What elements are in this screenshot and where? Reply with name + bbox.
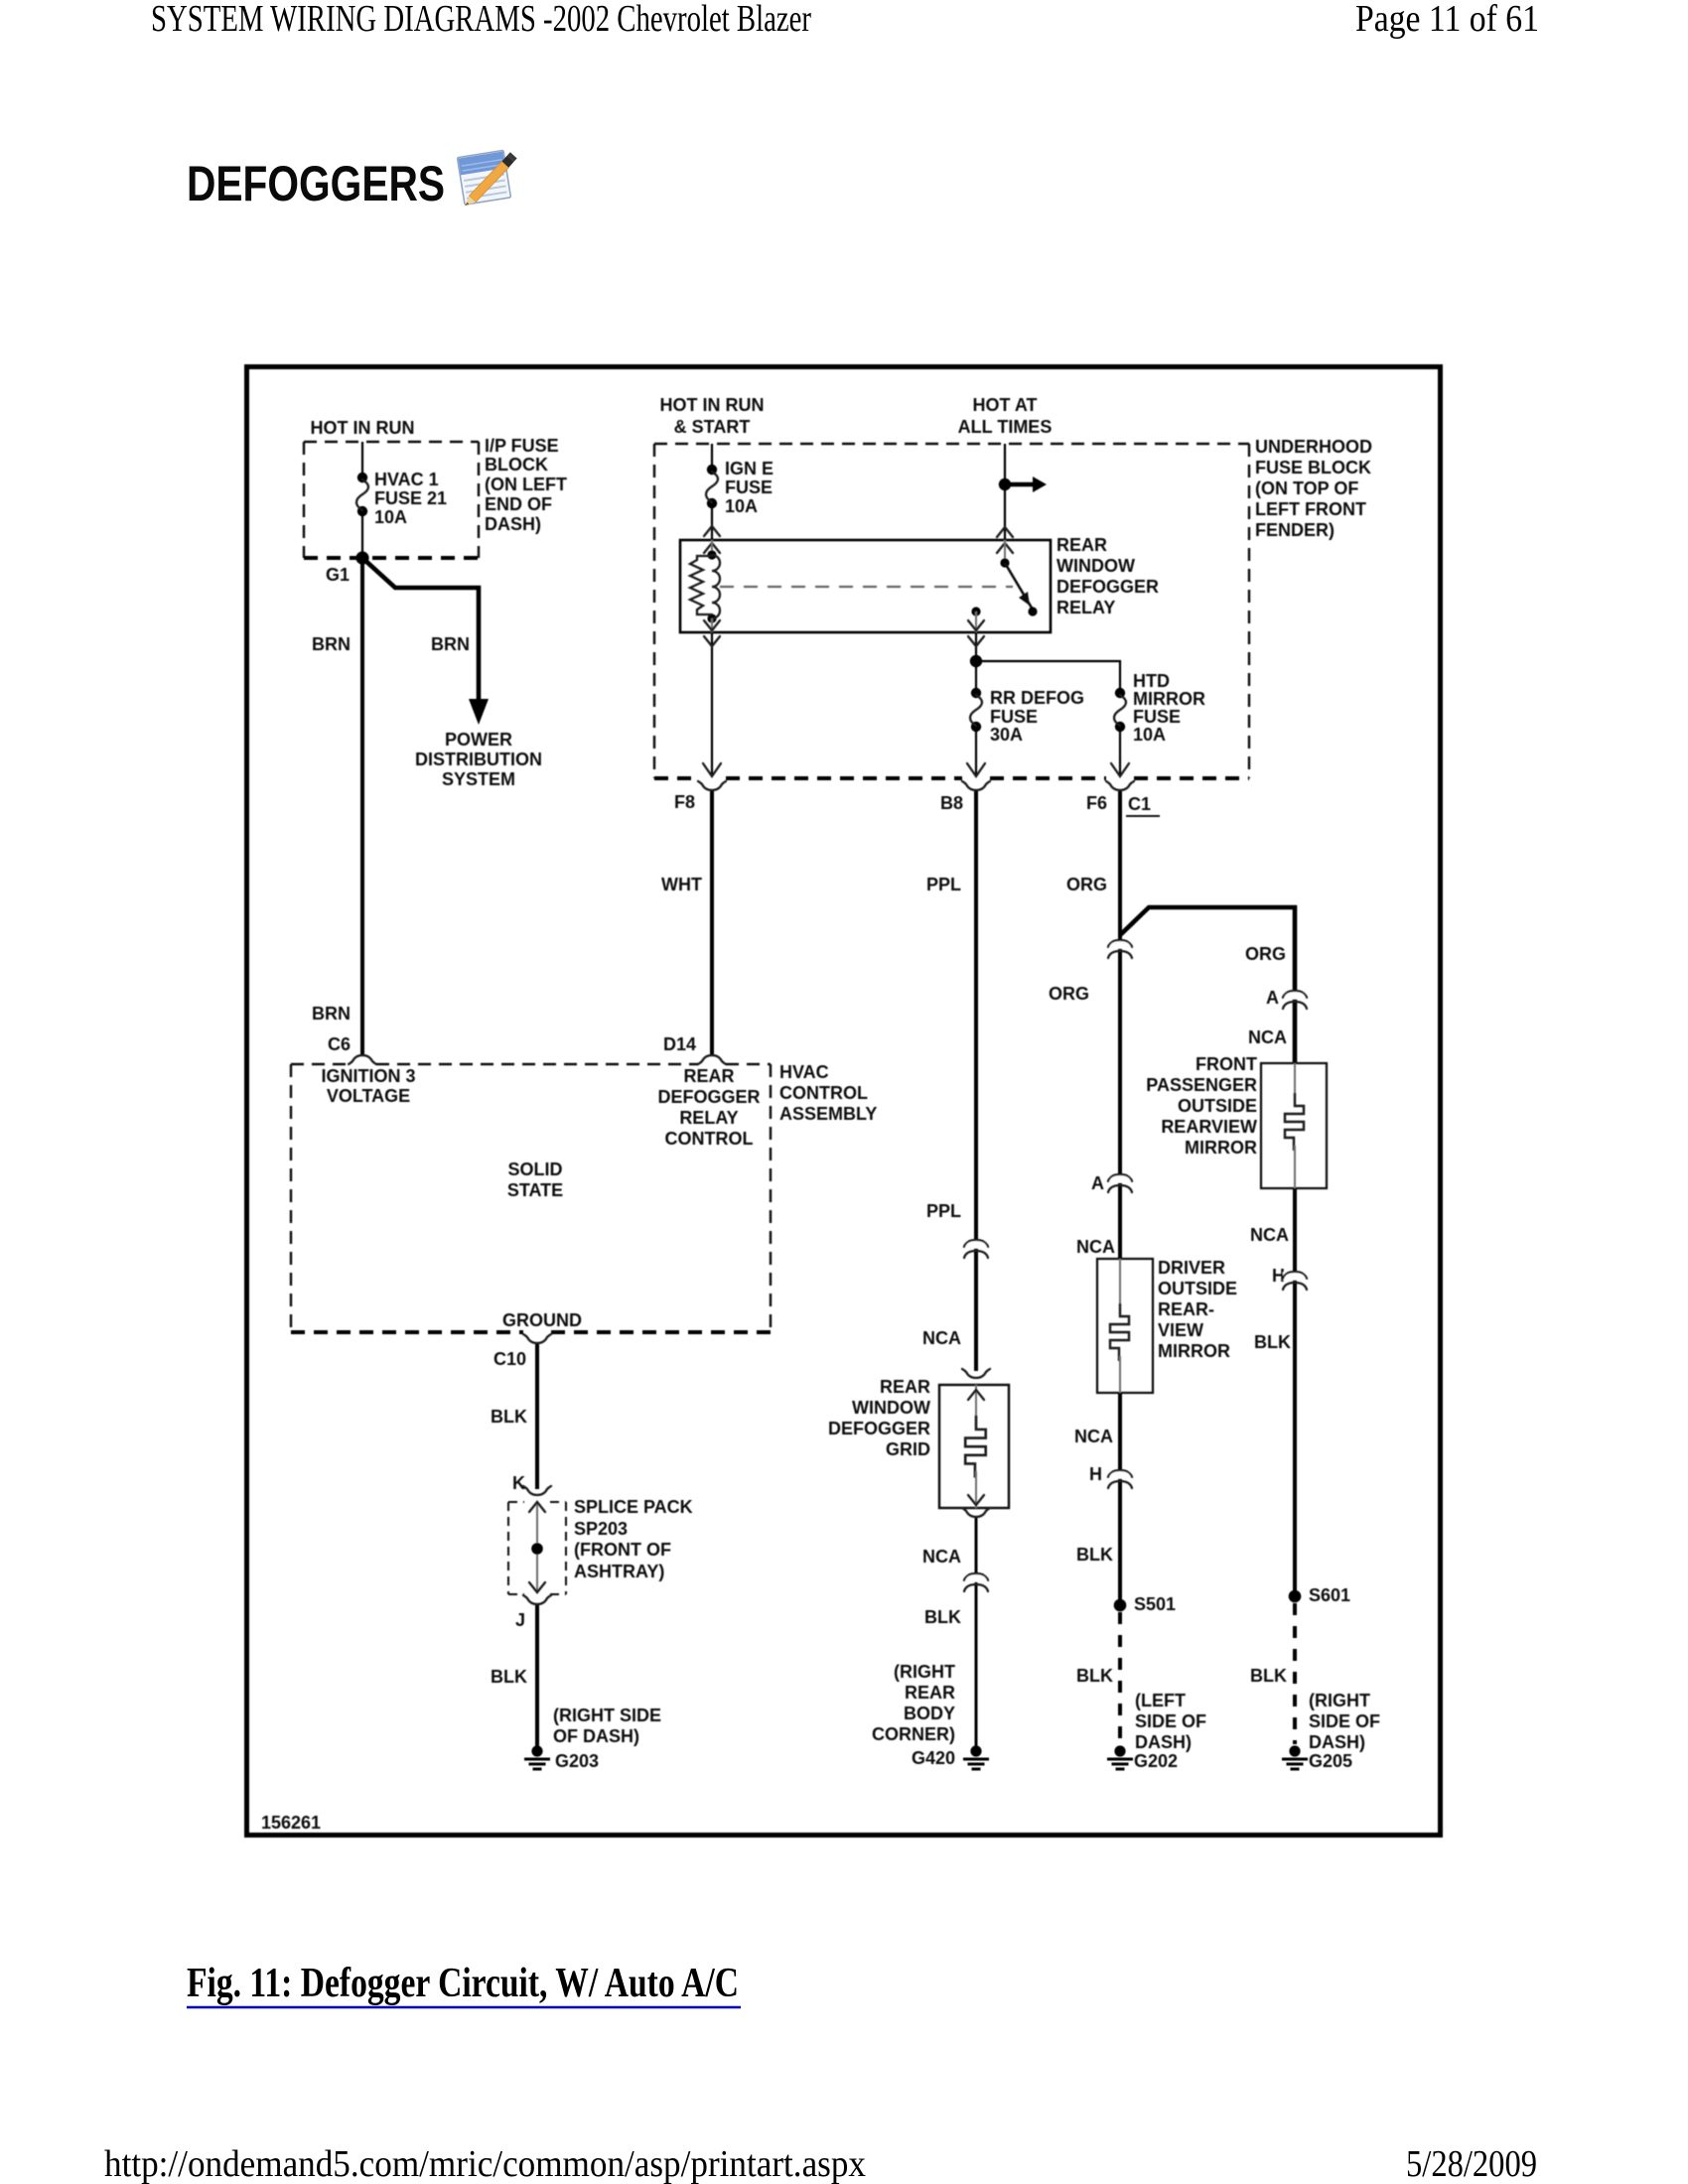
wire passenger mirror to S601 <box>1293 1188 1297 1596</box>
heater element grid <box>965 1416 986 1478</box>
svg-text:BLK: BLK <box>1076 1545 1113 1565</box>
svg-text:BLK: BLK <box>1254 1332 1291 1352</box>
pin chevron inside relay left <box>704 543 720 553</box>
svg-text:ORG: ORG <box>1049 984 1089 1004</box>
label IGNITION 3 VOLTAGE <box>321 1066 415 1106</box>
wire relay left pin to F8 <box>711 632 713 775</box>
passenger mirror box <box>1261 1063 1327 1188</box>
svg-text:OF DASH): OF DASH) <box>553 1726 639 1746</box>
svg-text:G420: G420 <box>912 1748 955 1768</box>
svg-text:WINDOW: WINDOW <box>1056 556 1135 576</box>
svg-text:(LEFT: (LEFT <box>1135 1691 1186 1710</box>
svg-text:BRN: BRN <box>431 634 470 654</box>
svg-text:NCA: NCA <box>922 1547 961 1567</box>
svg-text:D14: D14 <box>663 1034 696 1054</box>
svg-text:VIEW: VIEW <box>1158 1320 1203 1340</box>
pin C1 <box>1128 794 1151 814</box>
svg-text:OUTSIDE: OUTSIDE <box>1178 1096 1257 1116</box>
svg-text:ORG: ORG <box>1066 875 1107 894</box>
svg-text:NCA: NCA <box>1248 1027 1287 1047</box>
svg-text:GROUND: GROUND <box>502 1310 582 1330</box>
pin J <box>523 1595 551 1604</box>
svg-text:NCA: NCA <box>1074 1427 1113 1446</box>
svg-text:BLOCK: BLOCK <box>485 455 548 475</box>
ground G420 <box>963 1745 989 1770</box>
heater element driver mirror <box>1119 1259 1121 1304</box>
svg-text:BRN: BRN <box>312 1004 351 1024</box>
svg-text:(RIGHT SIDE: (RIGHT SIDE <box>553 1706 661 1725</box>
pin F8 <box>698 781 726 790</box>
svg-text:G205: G205 <box>1309 1751 1352 1771</box>
svg-text:HOT IN RUN: HOT IN RUN <box>311 418 415 438</box>
label (LEFT SIDE OF DASH) <box>1135 1691 1206 1752</box>
heater element passenger mirror <box>1294 1063 1296 1094</box>
ground G205 <box>1282 1745 1308 1770</box>
svg-text:(FRONT OF: (FRONT OF <box>574 1540 671 1560</box>
svg-text:Fig. 11: Defogger Circuit, W/: Fig. 11: Defogger Circuit, W/ Auto A/C <box>187 1961 739 2006</box>
svg-text:& START: & START <box>674 417 751 437</box>
connector break <box>964 1573 988 1591</box>
relay common terminal <box>971 607 980 615</box>
svg-text:SIDE OF: SIDE OF <box>1309 1711 1380 1731</box>
svg-text:C10: C10 <box>493 1349 526 1369</box>
svg-text:OUTSIDE: OUTSIDE <box>1158 1279 1237 1298</box>
svg-text:REAR: REAR <box>880 1377 930 1397</box>
fuse HVAC 1 FUSE 21 10A <box>356 473 368 516</box>
svg-text:SIDE OF: SIDE OF <box>1135 1711 1206 1731</box>
wire BRN down to C6 <box>360 558 364 1054</box>
dashed wire to G205 <box>1293 1603 1297 1744</box>
fuse RR DEFOG 30A <box>970 688 982 732</box>
connector break <box>1108 940 1132 958</box>
svg-text:REARVIEW: REARVIEW <box>1161 1117 1257 1137</box>
svg-text:DEFOGGER: DEFOGGER <box>657 1087 760 1107</box>
svg-text:C1: C1 <box>1128 794 1151 814</box>
svg-text:10A: 10A <box>374 507 407 527</box>
wire stub into fuse <box>361 442 363 478</box>
svg-text:RELAY: RELAY <box>1056 598 1115 617</box>
relay label REAR WINDOW DEFOGGER RELAY <box>1056 535 1159 617</box>
svg-text:CONTROL: CONTROL <box>779 1083 868 1103</box>
I/P fuse block label <box>485 436 567 534</box>
pin into grid <box>962 1369 990 1378</box>
svg-text:REAR: REAR <box>683 1066 734 1086</box>
svg-text:DASH): DASH) <box>1135 1732 1192 1752</box>
svg-text:CORNER): CORNER) <box>872 1724 955 1744</box>
label DRIVER OUTSIDE REAR-VIEW MIRROR <box>1158 1258 1237 1361</box>
node G1 <box>355 551 368 564</box>
svg-text:WHT: WHT <box>661 875 702 894</box>
svg-text:B8: B8 <box>940 793 963 813</box>
svg-text:MIRROR: MIRROR <box>1133 689 1205 709</box>
svg-text:K: K <box>512 1473 525 1493</box>
relay coil out chevron <box>711 618 713 632</box>
svg-text:DASH): DASH) <box>1309 1732 1365 1752</box>
svg-text:BLK: BLK <box>491 1407 527 1427</box>
pin out of grid <box>962 1508 990 1517</box>
wire junction to HTD fuse <box>976 661 1120 693</box>
fuse IGN E 10A <box>706 465 718 508</box>
wire HOT AT ALL TIMES into relay <box>1004 444 1006 540</box>
wire stub to IGN E fuse <box>711 444 713 470</box>
relay box <box>680 540 1051 632</box>
node HOT IN RUN & START <box>660 395 765 437</box>
svg-text:BRN: BRN <box>312 634 351 654</box>
wire HTD to F6 <box>1119 727 1121 775</box>
svg-text:MIRROR: MIRROR <box>1185 1138 1257 1158</box>
svg-text:SOLID: SOLID <box>507 1160 562 1179</box>
svg-text:Page 11 of 61: Page 11 of 61 <box>1355 0 1539 40</box>
svg-text:END OF: END OF <box>485 494 552 514</box>
splice node SP203 <box>531 1543 543 1555</box>
svg-text:J: J <box>515 1610 525 1630</box>
svg-text:BLK: BLK <box>1076 1666 1113 1686</box>
wire PPL B8 down <box>974 791 978 1371</box>
svg-text:FUSE: FUSE <box>1133 707 1181 727</box>
label HVAC CONTROL ASSEMBLY <box>779 1062 877 1124</box>
svg-text:IGN E: IGN E <box>725 459 774 478</box>
wire fuse to G1 <box>361 511 363 558</box>
svg-text:HVAC 1: HVAC 1 <box>374 470 439 489</box>
svg-text:(ON TOP OF: (ON TOP OF <box>1255 478 1358 498</box>
pin C10 <box>523 1334 551 1343</box>
svg-text:ASHTRAY): ASHTRAY) <box>574 1562 664 1581</box>
svg-text:S501: S501 <box>1134 1594 1176 1614</box>
svg-text:ASSEMBLY: ASSEMBLY <box>779 1104 877 1124</box>
splice internal wire <box>536 1503 538 1592</box>
fuse HTD MIRROR 10A <box>1114 688 1126 732</box>
svg-text:I/P FUSE: I/P FUSE <box>485 436 559 456</box>
label POWER DISTRIBUTION SYSTEM <box>415 730 542 789</box>
splice pack SP203 dashed box <box>508 1502 566 1594</box>
wire junction to RR DEFOG fuse <box>975 661 977 693</box>
wire RR DEFOG to B8 <box>975 727 977 775</box>
wire WHT F8 to D14 <box>710 791 714 1054</box>
rear window defogger grid box <box>939 1385 1009 1508</box>
wire BLK C10 to splice <box>535 1344 539 1489</box>
svg-text:DISTRIBUTION: DISTRIBUTION <box>415 750 542 769</box>
connector chevron above relay right <box>997 527 1013 537</box>
svg-text:LEFT FRONT: LEFT FRONT <box>1255 499 1366 519</box>
label (RIGHT REAR BODY CORNER) <box>872 1662 955 1744</box>
svg-text:SP203: SP203 <box>574 1519 628 1539</box>
svg-text:HVAC: HVAC <box>779 1062 829 1082</box>
svg-text:REAR-: REAR- <box>1158 1299 1214 1319</box>
svg-text:A: A <box>1266 988 1279 1008</box>
svg-text:NCA: NCA <box>922 1328 961 1348</box>
svg-text:BLK: BLK <box>924 1607 961 1627</box>
svg-text:FUSE: FUSE <box>990 707 1038 727</box>
svg-text:DASH): DASH) <box>485 514 541 534</box>
svg-text:RR DEFOG: RR DEFOG <box>990 688 1084 708</box>
svg-text:UNDERHOOD: UNDERHOOD <box>1255 437 1372 457</box>
svg-text:ALL TIMES: ALL TIMES <box>958 417 1053 437</box>
svg-text:GRID: GRID <box>886 1439 930 1459</box>
wire ORG branch to right <box>1120 907 1295 1063</box>
svg-text:(ON LEFT: (ON LEFT <box>485 475 567 494</box>
svg-text:(RIGHT: (RIGHT <box>1309 1691 1370 1710</box>
svg-text:PASSENGER: PASSENGER <box>1146 1075 1257 1095</box>
grid internal wire <box>975 1385 977 1418</box>
svg-text:SYSTEM WIRING DIAGRAMS -2002 C: SYSTEM WIRING DIAGRAMS -2002 Chevrolet B… <box>151 0 811 40</box>
notepad pencil icon <box>458 150 517 207</box>
label (RIGHT SIDE OF DASH) <box>553 1706 661 1746</box>
svg-text:HTD: HTD <box>1133 671 1170 691</box>
relay resistor <box>690 556 712 614</box>
svg-text:G203: G203 <box>555 1751 599 1771</box>
svg-text:F6: F6 <box>1086 793 1107 813</box>
svg-text:5/28/2009: 5/28/2009 <box>1406 2143 1537 2184</box>
svg-text:REAR: REAR <box>905 1683 955 1703</box>
pin F6 <box>1106 781 1134 790</box>
driver mirror box <box>1097 1259 1153 1393</box>
svg-text:RELAY: RELAY <box>679 1108 738 1128</box>
svg-text:F8: F8 <box>674 792 695 812</box>
svg-text:REAR: REAR <box>1056 535 1107 555</box>
underhood fuse block dashed box <box>654 444 1249 778</box>
svg-text:G202: G202 <box>1134 1751 1178 1771</box>
splice S601 <box>1289 1590 1302 1603</box>
svg-text:PPL: PPL <box>926 875 961 894</box>
svg-text:IGNITION 3: IGNITION 3 <box>321 1066 415 1086</box>
svg-text:A: A <box>1091 1173 1104 1193</box>
svg-text:HOT IN RUN: HOT IN RUN <box>660 395 765 415</box>
svg-text:FUSE: FUSE <box>725 478 773 497</box>
svg-text:STATE: STATE <box>507 1180 563 1200</box>
svg-text:H: H <box>1089 1464 1102 1484</box>
svg-text:G1: G1 <box>326 565 350 585</box>
wire branch to power distribution <box>362 558 479 707</box>
svg-text:http://ondemand5.com/mric/comm: http://ondemand5.com/mric/common/asp/pri… <box>104 2143 866 2184</box>
svg-text:156261: 156261 <box>261 1813 321 1833</box>
svg-text:10A: 10A <box>1133 725 1166 745</box>
svg-text:BLK: BLK <box>1250 1666 1287 1686</box>
svg-text:DEFOGGER: DEFOGGER <box>1056 577 1159 597</box>
label SOLID STATE <box>507 1160 563 1200</box>
relay coil <box>707 550 716 559</box>
svg-text:WINDOW: WINDOW <box>852 1398 930 1418</box>
wire ORG F6 down <box>1118 791 1122 1259</box>
underhood fuse block label <box>1255 437 1372 540</box>
svg-text:NCA: NCA <box>1076 1237 1115 1257</box>
pin B8 <box>962 781 990 790</box>
svg-text:SPLICE PACK: SPLICE PACK <box>574 1497 693 1517</box>
node fuse feed junction <box>970 655 982 667</box>
svg-text:BODY: BODY <box>904 1704 955 1723</box>
connector chevron above relay <box>704 526 720 536</box>
connector break <box>964 1240 988 1258</box>
node feed junction <box>999 478 1011 490</box>
svg-text:DEFOGGER: DEFOGGER <box>828 1419 930 1438</box>
dashed wire to G202 <box>1118 1612 1122 1744</box>
ground G203 <box>524 1745 550 1770</box>
label FRONT PASSENGER OUTSIDE REARVIEW MIRROR <box>1146 1054 1257 1158</box>
svg-text:FRONT: FRONT <box>1196 1054 1257 1074</box>
svg-text:MIRROR: MIRROR <box>1158 1341 1230 1361</box>
arrow to power distribution <box>469 699 489 725</box>
svg-text:S601: S601 <box>1309 1585 1350 1605</box>
arrow feed right <box>1005 482 1035 486</box>
node HOT AT ALL TIMES <box>958 395 1053 437</box>
I/P fuse block dashed box <box>304 442 479 558</box>
relay internal dashed link <box>720 586 1013 588</box>
svg-text:30A: 30A <box>990 725 1023 745</box>
svg-text:C6: C6 <box>328 1034 351 1054</box>
label REAR WINDOW DEFOGGER GRID <box>828 1377 930 1459</box>
svg-text:FENDER): FENDER) <box>1255 520 1335 540</box>
svg-text:ORG: ORG <box>1245 944 1286 964</box>
wire fuse to relay <box>711 503 713 540</box>
diagram frame <box>247 367 1441 1836</box>
pin chevron inside relay right <box>997 543 1013 553</box>
wire driver mirror to S501 <box>1118 1393 1122 1605</box>
wire BLK J to G203 <box>535 1605 539 1746</box>
svg-text:PPL: PPL <box>926 1201 961 1221</box>
relay switch <box>1000 558 1009 567</box>
svg-text:POWER: POWER <box>445 730 512 750</box>
label REAR DEFOGGER RELAY CONTROL <box>657 1066 760 1149</box>
label SPLICE PACK SP203 (FRONT OF ASHTRAY) <box>574 1497 693 1581</box>
svg-text:NCA: NCA <box>1250 1225 1289 1245</box>
wire relay common down <box>975 632 977 661</box>
svg-text:DEFOGGERS: DEFOGGERS <box>187 156 445 211</box>
svg-text:VOLTAGE: VOLTAGE <box>327 1086 410 1106</box>
svg-text:FUSE 21: FUSE 21 <box>374 488 447 508</box>
svg-text:CONTROL: CONTROL <box>665 1129 754 1149</box>
svg-text:HOT AT: HOT AT <box>973 395 1038 415</box>
splice S501 <box>1114 1599 1127 1612</box>
svg-text:DRIVER: DRIVER <box>1158 1258 1225 1278</box>
ground G202 <box>1107 1745 1133 1770</box>
svg-text:10A: 10A <box>725 496 758 516</box>
svg-text:BLK: BLK <box>491 1667 527 1687</box>
svg-text:SYSTEM: SYSTEM <box>442 769 515 789</box>
svg-text:(RIGHT: (RIGHT <box>894 1662 955 1682</box>
svg-text:FUSE BLOCK: FUSE BLOCK <box>1255 458 1371 478</box>
label (RIGHT SIDE OF DASH) <box>1309 1691 1380 1752</box>
HVAC control assembly dashed box <box>291 1064 771 1332</box>
wire to G420 <box>975 1518 978 1746</box>
